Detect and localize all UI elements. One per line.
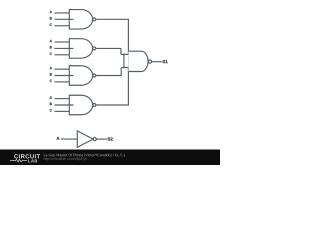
wire U5 pin1 xyxy=(121,53,129,55)
logo resistor line xyxy=(10,159,27,162)
wire U3 input A xyxy=(55,68,70,70)
wire U1 output to U5 pin1 xyxy=(96,19,129,54)
wire U3 input B xyxy=(55,75,74,77)
wire U4 input A xyxy=(55,98,70,100)
wire U1 input A xyxy=(55,12,70,14)
nand gate U5 bubble xyxy=(148,60,151,63)
wire U2 output to U5 pin1 xyxy=(96,48,121,54)
label U3 A xyxy=(50,67,52,69)
nand gate U3 bubble xyxy=(93,74,96,77)
wire U5 output S1 xyxy=(152,61,163,63)
logo LAB xyxy=(28,159,37,162)
junction dot pin2 tie xyxy=(123,67,125,69)
label U2 A xyxy=(50,40,52,42)
wire U2 input B xyxy=(55,47,74,49)
label S1 xyxy=(163,60,168,63)
wire U5 pin2 xyxy=(121,67,128,69)
nand gate U4 bubble xyxy=(93,104,96,107)
wire U6 input A xyxy=(61,138,78,140)
nand gate U1 body xyxy=(69,10,92,30)
wire tie pin1 to pin2 xyxy=(123,54,125,67)
label U4 A xyxy=(50,96,52,98)
label U1 B xyxy=(50,17,52,19)
wire U3 output to U5 pin2 xyxy=(96,68,121,76)
inverter U6 bubble xyxy=(93,138,96,141)
junction dot pin1 tie xyxy=(123,54,125,56)
wire U4 input B xyxy=(55,104,74,106)
wire U1 input C xyxy=(55,25,70,27)
logo CIRCUIT xyxy=(14,154,40,158)
label U4 C xyxy=(50,109,52,111)
footer line 1 xyxy=(44,154,125,157)
label U3 B xyxy=(50,73,52,75)
nand gate U4 body xyxy=(69,95,92,115)
wire U4 output to U5 pin2 xyxy=(96,68,129,106)
label U2 B xyxy=(50,46,52,48)
wire U2 input A xyxy=(55,41,70,43)
nand gate U1 bubble xyxy=(93,18,96,21)
label U4 B xyxy=(50,103,52,105)
wire U4 input C xyxy=(55,110,70,112)
wire U3 input C xyxy=(55,81,70,83)
nand gate U2 bubble xyxy=(93,47,96,50)
nand gate U3 body xyxy=(69,66,92,86)
label U1 C xyxy=(50,23,52,25)
label U6 A xyxy=(57,137,60,140)
nand gate U5 body (final) xyxy=(129,51,148,71)
faint left edge of U5 xyxy=(128,51,130,71)
nand gate U2 body xyxy=(69,39,92,59)
wire U2 input C xyxy=(55,54,70,56)
label U2 C xyxy=(50,53,52,55)
wire U1 input B xyxy=(55,18,74,20)
footer bar xyxy=(0,150,220,166)
label U1 A xyxy=(50,11,52,13)
label U3 C xyxy=(50,80,52,82)
wire U6 output S2 xyxy=(96,138,107,140)
label S2 xyxy=(108,137,113,140)
footer line 2 xyxy=(44,157,87,160)
inverter U6 body xyxy=(77,131,93,147)
